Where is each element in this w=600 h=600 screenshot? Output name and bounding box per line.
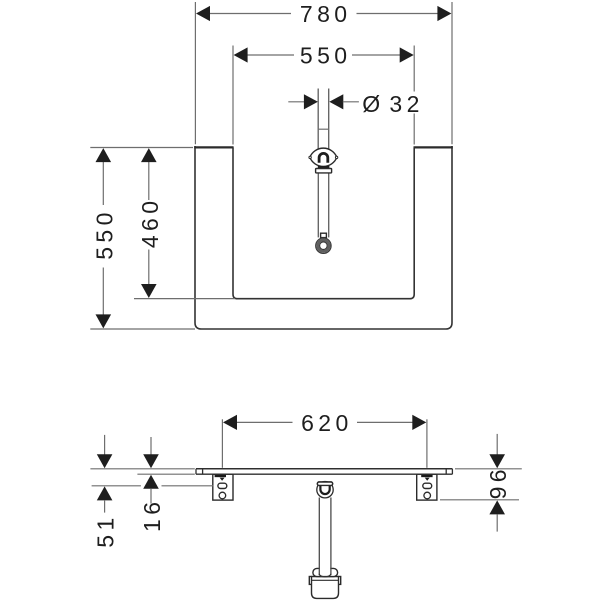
left bracket hole	[219, 492, 226, 499]
dim 32 line right	[343, 101, 359, 103]
siphon inlet circle	[317, 482, 333, 498]
dim 51 arrow up	[97, 486, 113, 500]
siphon nut	[313, 568, 338, 576]
dim 550 arrow right	[400, 47, 414, 62]
svg-text:460: 460	[137, 197, 163, 249]
console top edge left arm	[194, 146, 233, 148]
right bracket hole	[424, 492, 431, 499]
dim 32 arrow right	[329, 94, 343, 109]
siphon inlet flange redraw	[317, 482, 332, 485]
left bracket screw bar	[215, 475, 226, 478]
left extension slab bottom	[137, 473, 194, 475]
dim 96 arrow up	[489, 500, 505, 514]
dim 16 arrow down	[143, 454, 159, 468]
svg-text:96: 96	[485, 465, 511, 499]
left extension slab top	[90, 468, 194, 470]
drain pipe	[318, 498, 320, 576]
dim 620 arrow right	[412, 415, 426, 430]
dim 96 arrow down	[489, 454, 505, 468]
dim 780 line	[209, 13, 291, 15]
siphon tab right	[338, 577, 341, 585]
dim 780 arrow left	[196, 6, 210, 21]
dim 460 extension line	[134, 298, 235, 300]
dim 620 arrow left	[223, 415, 237, 430]
drain pipe slot upper segment	[317, 89, 319, 150]
svg-text:550: 550	[91, 208, 117, 260]
pipe joint line	[318, 128, 329, 130]
drain hole ring	[316, 238, 331, 253]
dim 16 arrow up	[143, 475, 159, 489]
drain fitting lens body	[310, 148, 337, 166]
svg-text:620: 620	[301, 410, 353, 436]
svg-text:550: 550	[300, 42, 352, 68]
dim 550 extension lines	[232, 46, 234, 145]
nut inner arc	[319, 574, 331, 577]
svg-text:51: 51	[93, 513, 119, 547]
left bracket screw tip	[220, 478, 225, 481]
console top edge right arm	[414, 146, 453, 148]
slab top edge	[196, 468, 452, 470]
console outer outline	[195, 146, 452, 329]
nut top cover for pipe	[320, 567, 330, 571]
fitting inner arch	[319, 153, 328, 162]
dim 16 tail bottom	[150, 489, 152, 504]
slab bottom edge	[196, 473, 452, 475]
dim 96 extension bottom	[440, 499, 519, 501]
dim 550v arrow top	[96, 148, 112, 162]
dim 96 tail top	[496, 434, 498, 455]
dim 51 tail top	[104, 435, 106, 456]
svg-text:16: 16	[139, 498, 165, 532]
dim 16 tail top	[150, 437, 152, 456]
dim 550v arrow bottom	[96, 314, 112, 328]
lens tip notch left	[309, 156, 311, 158]
dim 51 tail bottom	[104, 500, 106, 513]
siphon flange bar	[317, 482, 332, 485]
dim 96 tail bottom	[496, 514, 498, 531]
siphon cup	[312, 577, 339, 599]
fitting seat bar	[318, 166, 330, 168]
lens tip notch right	[335, 156, 337, 158]
dim 51 arrow down	[97, 454, 113, 468]
dim 550 arrow left	[234, 47, 248, 62]
slab right end cap	[445, 469, 447, 474]
dim 32 arrow left	[304, 94, 318, 109]
console inner recess outline	[233, 148, 414, 299]
right bracket	[417, 474, 437, 500]
dim 780 arrow right	[437, 6, 451, 21]
right bracket screw tip	[425, 478, 430, 481]
siphon cup rim line	[312, 579, 339, 581]
dim 620 line	[236, 421, 293, 423]
drain hole notch	[321, 233, 327, 237]
dim 780 extension lines	[194, 2, 196, 144]
dim 620 extension lines	[221, 419, 223, 468]
slab left end cap	[195, 469, 197, 474]
dim 550 line	[247, 54, 295, 56]
siphon inner U	[320, 486, 329, 494]
dim 460 line	[148, 161, 150, 201]
dim 460 arrow top	[141, 148, 157, 162]
left bracket slot	[218, 483, 227, 488]
dim 460 arrow bottom	[141, 284, 157, 298]
right bracket slot	[423, 483, 432, 488]
dim 96 extension top	[455, 468, 522, 470]
dim 550 vertical extension lines	[90, 147, 193, 149]
dim diameter 32 line left	[288, 101, 304, 103]
svg-text:780: 780	[300, 1, 352, 27]
pipe segment below fitting	[317, 173, 319, 238]
dim 550 vertical line	[102, 161, 104, 206]
left extension slot center	[92, 485, 141, 487]
left bracket	[213, 474, 233, 500]
right bracket screw bar	[421, 475, 432, 478]
fitting flange	[316, 169, 332, 173]
svg-text:32: 32	[389, 91, 423, 117]
siphon tab left	[309, 577, 312, 585]
svg-text:Ø: Ø	[362, 91, 384, 117]
